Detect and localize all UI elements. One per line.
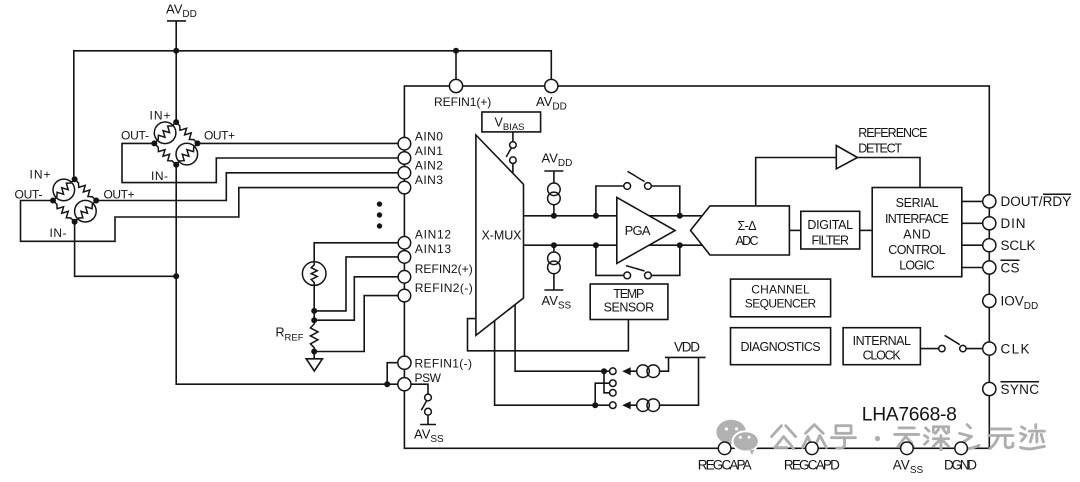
svg-text:OUT+: OUT+ [104,188,135,202]
svg-text:CS: CS [1001,260,1020,275]
pin REFIN1(-) [398,356,411,369]
wire mux output top [524,215,705,217]
serial interface box U-serial [872,188,962,277]
wire reference detect input [756,158,837,206]
svg-text:SENSOR: SENSOR [604,301,655,315]
wire AIN13 tap [314,257,398,311]
svg-text:LOGIC: LOGIC [899,259,935,273]
svg-text:AIN1: AIN1 [415,144,443,158]
svg-text:IN+: IN+ [30,168,51,182]
svg-text:SEQUENCER: SEQUENCER [745,297,817,311]
svg-text:X-MUX: X-MUX [482,229,523,243]
svg-text:REGCAPD: REGCAPD [784,458,840,473]
watermark wechat icon [716,420,759,455]
pin DIN [983,217,996,230]
pin AIN3 [398,181,411,194]
node bypass bottom-right [677,242,683,248]
pin REFIN1(+) [449,79,462,92]
wire AVDD vertical main [175,21,177,122]
pin IOVDD [983,294,996,307]
svg-text:CLK: CLK [1001,341,1030,356]
svg-text:AIN2: AIN2 [415,159,443,173]
svg-text:OUT-: OUT- [15,188,43,202]
svg-text:CHANNEL: CHANNEL [751,283,810,297]
labels bottom pins [698,458,978,477]
node junction rail-refin1 [453,48,459,54]
resistor RREF [276,320,319,351]
wire bridge1 OUT+ to AIN0 [198,142,399,144]
wire bridge2 IN- to junction [75,222,177,276]
pin CS [983,261,996,274]
node bypass top-right [677,213,683,219]
pin AIN13 [398,251,411,264]
svg-text:AIN0: AIN0 [415,130,443,144]
switch bypass bottom [624,266,652,279]
node AVDD-top line [551,213,557,219]
pin SCLK [983,239,996,252]
svg-text:SCLK: SCLK [1001,238,1036,253]
svg-text:ADC: ADC [736,234,759,248]
svg-text:OUT+: OUT+ [204,129,235,143]
wire REFIN2(+) tap [314,277,398,320]
VBIAS box [482,112,541,133]
node bypass top-left [593,213,599,219]
switch PSW-AVSS [420,394,436,424]
channel sequencer box [731,279,831,317]
wire serial to DIN [962,222,982,224]
wire REFIN1(+) drop [455,51,457,80]
ellipsis dots AIN4-11 [377,201,382,228]
node junction bridges [173,273,179,279]
node junction PSW [384,381,390,387]
digital filter box [801,211,860,249]
pin REFIN2(+) [398,271,411,284]
svg-text:AIN13: AIN13 [415,242,452,256]
pin AIN12 [398,237,411,250]
switch internal clock [939,335,966,352]
wire bridge2 OUT+ to AIN2 [96,173,398,201]
switch contacts burnout [610,368,617,409]
wire temp-sensor to mux [468,319,629,351]
wire internal clock to CLK [920,348,982,350]
node burnout top [601,368,607,374]
pin DOUT/RDY [983,195,996,208]
svg-text:TEMP: TEMP [613,287,644,301]
current source burnout bottom [622,357,698,411]
ground symbol [306,352,322,372]
wire crosslink top-to-lower-contact [604,371,610,393]
svg-text:DIAGNOSTICS: DIAGNOSTICS [741,340,821,354]
svg-text:IN-: IN- [50,226,67,240]
op-amp PGA [617,197,675,263]
wire filter to serial [860,229,873,231]
pin REGCAPA [718,442,731,455]
wire bridge2 OUT- to AIN3 [21,188,399,242]
svg-text:INTERNAL: INTERNAL [853,334,911,348]
wire RTD to RREF [313,285,315,321]
X-MUX [476,135,524,335]
power label VDD [665,340,706,358]
svg-text:Σ-Δ: Σ-Δ [738,219,757,233]
pin SYNC [983,382,996,395]
labels AIN pins [415,130,473,386]
temp sensor box [590,284,668,320]
RTD sensor [302,262,326,286]
power AVDD above PGA [542,151,573,216]
svg-text:PGA: PGA [625,223,651,238]
chip boundary [404,86,989,448]
svg-text:AND: AND [903,227,930,241]
svg-text:VDD: VDD [674,340,700,355]
power label AVDD top-left [166,2,197,21]
pin PSW [398,378,411,391]
svg-text:DETECT: DETECT [858,142,902,156]
svg-text:IN+: IN+ [150,108,171,122]
node RREF top B [311,317,317,323]
wire serial to SCLK [962,244,982,246]
svg-text:REFERENCE: REFERENCE [858,126,927,140]
pin REFIN2(-) [398,289,411,302]
wire mux output bottom [524,244,705,246]
pin AIN1 [398,152,411,165]
svg-text:REFIN2(+): REFIN2(+) [415,262,473,276]
wire reference detect output [858,158,921,188]
svg-text:AIN12: AIN12 [415,228,452,242]
current source burnout top [622,357,668,377]
wire bridge1 OUT- to AIN1 [122,143,398,182]
reference detect buffer [836,146,857,169]
wire AIN12 to RTD [314,243,398,263]
wire PGA bypass bottom [596,245,680,275]
node junction rail-left [173,48,179,54]
pin AVSS bottom [901,442,914,455]
pin AIN2 [398,167,411,180]
node bypass bottom-left [593,242,599,248]
bridge sensor 1 [121,108,235,183]
svg-text:LHA7668-8: LHA7668-8 [862,405,957,426]
node burnout bottom [592,402,598,408]
pin REGCAPD [806,442,819,455]
svg-text:DGND: DGND [944,458,977,473]
wire PSW to AVSS switch [411,384,428,394]
svg-text:FILTER: FILTER [812,234,850,248]
node AVSS-bottom line [551,242,557,248]
svg-text:DIN: DIN [1001,216,1026,231]
switch VBIAS [506,132,516,173]
pin AVDD top [545,79,558,92]
label reference detect [858,126,927,156]
svg-text:REGCAPA: REGCAPA [698,458,752,473]
svg-text:INTERFACE: INTERFACE [885,212,949,226]
internal clock box [843,328,920,365]
pin DGND [955,442,968,455]
wire REFIN2(-) tap [314,296,398,352]
wire burnout top row [515,305,609,371]
pin AIN0 [398,137,411,150]
svg-text:CONTROL: CONTROL [888,243,945,257]
svg-text:REFIN2(-): REFIN2(-) [415,281,473,295]
svg-text:DIGITAL: DIGITAL [807,218,853,232]
pin CLK [983,342,996,355]
wire AVDD rail top [74,51,552,178]
wire serial to CS [962,267,982,269]
svg-text:DOUT/RDY: DOUT/RDY [1001,194,1072,209]
diagnostics box [731,328,831,365]
node RREF bottom C [311,349,317,355]
wire crosslink bottom-to-upper-contact [595,383,609,405]
wire burnout bottom row [495,321,610,405]
labels right pins [1001,194,1072,397]
svg-text:SERIAL: SERIAL [896,196,939,210]
power AVSS below PGA [542,245,572,311]
svg-text:CLOCK: CLOCK [863,348,902,362]
svg-text:AIN3: AIN3 [415,173,443,187]
wire bridge1 IN- down [175,165,177,277]
wire ADC to digital filter [789,229,800,231]
ADC sigma-delta block [691,206,790,255]
bridge sensor 2 [15,168,135,240]
watermark text gongzhonghao yunshenzhiwuji [772,425,1045,450]
svg-text:IN-: IN- [151,169,168,183]
svg-text:PSW: PSW [415,371,442,385]
svg-text:OUT-: OUT- [121,129,149,143]
wire PGA bypass top [596,186,680,216]
svg-text:REFIN1(+): REFIN1(+) [434,95,491,109]
wire REFIN1(-) link [387,363,398,385]
svg-text:REFIN1(-): REFIN1(-) [415,356,473,370]
wire PSW feed [176,276,397,384]
switch bypass top [624,171,652,189]
svg-text:SYNC: SYNC [1001,382,1040,397]
node RREF top A [311,308,317,314]
wire serial to DOUT [962,200,982,202]
